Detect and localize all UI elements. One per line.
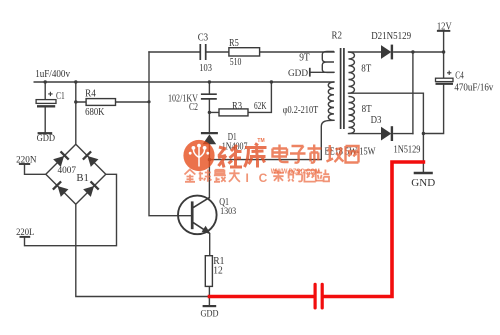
diode D3 [381,127,391,141]
watermark char zi [290,146,306,163]
node bridge/R4 column on rail [74,80,77,83]
svg-text:C1: C1 [56,91,65,102]
capacitor C4 electrolytic [436,78,454,81]
bridge diode top-right [83,151,99,167]
transformer secondary 8T top winding [349,52,355,93]
svg-text:B1: B1 [76,173,89,184]
svg-text:12V: 12V [437,21,452,32]
wire C1 leads [44,82,46,133]
svg-text:62K: 62K [254,101,267,112]
svg-text:GDD: GDD [37,134,56,144]
wire 8T top winding to D2 anode [349,51,382,53]
svg-text:8T: 8T [361,63,371,74]
wire 220N terminal to bridge left vertex [25,165,46,175]
svg-text:φ0.2-210T: φ0.2-210T [283,105,319,116]
wire emitter to R1 [209,234,211,256]
wire 8T bottom winding to D3 anode [349,133,382,135]
svg-text:R5: R5 [229,38,239,49]
svg-text:9T: 9T [299,52,310,63]
capacitor C1 electrolytic [36,100,56,104]
resistor R1 [205,256,212,287]
ground GND [414,172,433,175]
svg-text:C: C [259,171,268,185]
wire base-node vertical x=149 and base lead to Q1 [149,52,191,216]
svg-text:103: 103 [199,63,212,74]
svg-text:1303: 1303 [220,207,236,217]
wire R1 bottom and GDD stub [208,286,210,305]
watermark char zhan [316,170,329,182]
ground GDD bottom [203,305,217,307]
node D2 output junction [411,50,414,53]
wire 12V terminal lead [443,32,445,52]
resistor R5 [229,48,260,56]
wire red highlight path GDD to GND [210,162,424,297]
wire secondary center tap to GND [349,93,424,172]
wire D1 anode to collector node [208,144,210,197]
bridge diode bottom-right [83,181,99,197]
watermark char chang [327,145,344,162]
transformer primary GDD tap terminal [309,68,311,77]
svg-text:C4: C4 [455,71,464,82]
wire C2 leads [208,82,210,132]
watermark char cai [273,170,283,182]
transformer T1 primary 210T winding [328,82,334,120]
watermark char wang [346,146,359,163]
watermark char quan [185,170,196,182]
node R4 right junction [147,100,150,103]
wire R4 leads [76,101,149,103]
capacitor C3 [200,44,205,60]
watermark char dian [273,145,289,163]
node R3/C2/D1 junction [208,111,211,114]
resistor R4 [86,99,115,106]
svg-text:680K: 680K [85,107,105,118]
ground GDD under C1 [38,132,53,134]
wire 220L terminal to bridge right vertex [25,174,117,245]
diode D1 [201,132,218,134]
watermark char qiu [199,170,212,182]
svg-text:12: 12 [213,266,223,277]
node collector/primary junction [208,158,211,161]
wire C4 bottom lead to GND node [423,84,443,133]
svg-text:R2: R2 [332,30,343,41]
watermark char da [229,170,240,182]
watermark logo circle [183,140,214,171]
wire GDD tap to 9T winding [310,71,334,73]
wire D2 cathode to 12V node [394,51,444,53]
wire C4 top lead [443,52,445,78]
svg-text:220N: 220N [16,156,37,166]
watermark char zui [214,170,226,182]
wire DC+ vertical x=75.8 rail to bridge top [75,82,77,144]
svg-text:C3: C3 [198,32,208,43]
svg-text:D3: D3 [371,115,382,126]
wire DC+ rail y=82 [34,81,334,83]
svg-text:R3: R3 [232,101,242,112]
svg-text:510: 510 [230,57,242,68]
svg-text:4007: 4007 [58,166,77,176]
watermark char gou [288,170,302,181]
svg-text:1N5129: 1N5129 [394,144,421,155]
svg-text:8T: 8T [362,104,372,115]
svg-text:I: I [246,171,249,185]
node C1 tap on rail [44,80,47,83]
wire D3 cathode to output link [394,133,413,135]
watermark char shi [308,145,322,163]
watermark char ku [245,144,267,168]
svg-text:GND: GND [411,177,435,189]
bridge diode bottom-left [53,181,69,197]
watermark char wei [218,145,242,168]
wire collector to primary bottom y=159.6 [209,120,334,159]
bridge diode top-left [53,151,69,167]
svg-text:220L: 220L [16,228,34,238]
capacitor C2 [201,94,217,99]
terminal 220L [20,236,31,238]
transformer core [341,48,344,129]
diode D2 [381,45,391,59]
node R3 drop on rail [270,80,273,83]
svg-text:R4: R4 [85,89,96,100]
wire bridge diamond arms [46,144,106,204]
watermark char wang2 [304,170,315,181]
wire D2 to D3 output link x=412.9 [412,52,414,134]
svg-text:TM: TM [257,138,264,144]
svg-text:470uF/16v: 470uF/16v [454,83,493,94]
svg-text:C2: C2 [189,102,198,113]
node R4 left junction [74,100,77,103]
transformer T1 primary 9T winding [322,52,334,73]
wire top feedback rail y=52 [149,51,334,53]
terminal 220N [19,163,30,165]
transformer secondary 8T bottom winding [349,96,355,133]
svg-text:1uF/400v: 1uF/400v [35,69,70,80]
node C2 tap on rail [208,80,211,83]
svg-text:D21N5129: D21N5129 [371,31,411,42]
terminal 12V [437,30,450,32]
capacitor red suggested Y-cap [315,284,322,308]
svg-text:GDD: GDD [201,310,219,320]
wire R3 leads and drop from rail [209,82,271,112]
transistor Q1 [178,196,217,235]
node 12V/C4 junction [442,50,445,53]
wire bridge bottom to ground rail and rail to GDD [76,204,210,296]
resistor R3 [219,109,248,116]
node GND/C4- junction [422,132,425,135]
svg-text:GDD: GDD [288,69,308,79]
